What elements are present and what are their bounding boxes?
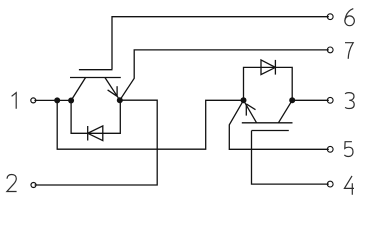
pin label 4 — [344, 176, 354, 195]
wire: left emitter node across and down to terminal 2 — [35, 100, 158, 185]
diode D1 (left freewheel diode) — [71, 100, 120, 140]
wire: terminal 1 net across to right-side emitter node — [57, 100, 243, 149]
node: junction on terminal 1 rail — [54, 97, 60, 103]
terminal 1 — [31, 98, 36, 103]
wire: right gate lead down to terminal 4 — [252, 131, 329, 185]
terminal 7 — [327, 47, 333, 53]
pin label 1 — [12, 93, 17, 109]
wire: terminal 7 rail down to emitter node of left IGBT — [120, 50, 329, 100]
node: left emitter junction — [117, 97, 123, 103]
transistor Q1 (left IGBT) — [70, 70, 121, 101]
wire: terminal 1 rail — [34, 99, 71, 101]
wire: terminal 3 rail — [292, 99, 329, 101]
pin label 3 — [345, 93, 354, 109]
pin label 2 — [7, 175, 17, 192]
terminal 6 — [327, 14, 333, 20]
terminal 3 — [327, 97, 333, 103]
wire: right emitter node down to terminal 5 — [229, 100, 328, 149]
terminal 4 — [327, 181, 333, 187]
pin label 6 — [345, 9, 355, 26]
terminal 5 — [327, 146, 333, 152]
node: left collector junction — [68, 98, 74, 104]
node: right emitter junction — [241, 97, 247, 103]
diode D2 (right freewheel diode) — [244, 60, 293, 100]
terminal 2 — [31, 183, 36, 188]
transistor Q2 (right IGBT) — [242, 100, 293, 130]
pin label 5 — [344, 142, 353, 157]
wire: terminal 6 rail to gate of left IGBT — [112, 17, 329, 69]
node: right collector junction — [289, 97, 295, 103]
pin label 7 — [345, 43, 353, 59]
